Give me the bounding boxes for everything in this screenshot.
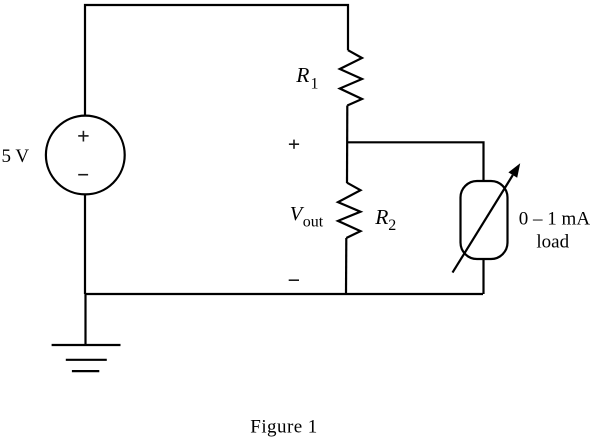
wire R2 bottom bbox=[345, 238, 347, 294]
load meter body rounded rectangle bbox=[461, 181, 508, 259]
voltage source plus label bbox=[78, 131, 88, 142]
svg-text:load: load bbox=[536, 231, 569, 252]
svg-text:5 V: 5 V bbox=[2, 146, 30, 167]
svg-text:R: R bbox=[374, 205, 388, 229]
resistor R1 zigzag bbox=[340, 50, 362, 105]
minus label Vout bbox=[289, 279, 299, 281]
wire load bottom bbox=[482, 259, 484, 294]
svg-text:0 – 1 mA: 0 – 1 mA bbox=[519, 208, 590, 229]
wire source bottom to ground rail bbox=[84, 195, 86, 295]
wire bottom rail bbox=[85, 293, 483, 295]
ground symbol bbox=[52, 345, 121, 371]
resistor R2 zigzag bbox=[338, 183, 361, 238]
voltage source V1 circle bbox=[46, 116, 125, 195]
voltage source minus label bbox=[78, 174, 88, 176]
load arrow line bbox=[453, 175, 513, 273]
svg-text:R: R bbox=[295, 63, 309, 87]
svg-text:out: out bbox=[303, 214, 324, 231]
svg-text:1: 1 bbox=[311, 76, 319, 93]
wire R1 to R2 bbox=[346, 106, 348, 184]
svg-text:Figure 1: Figure 1 bbox=[250, 416, 317, 437]
load arrow head bbox=[508, 163, 520, 178]
plus label Vout bbox=[289, 140, 299, 149]
wire ground stem bbox=[84, 294, 86, 345]
node junction wire to load bbox=[347, 142, 484, 181]
wire top rail from source to R1 bbox=[85, 5, 348, 116]
svg-text:2: 2 bbox=[388, 217, 396, 234]
